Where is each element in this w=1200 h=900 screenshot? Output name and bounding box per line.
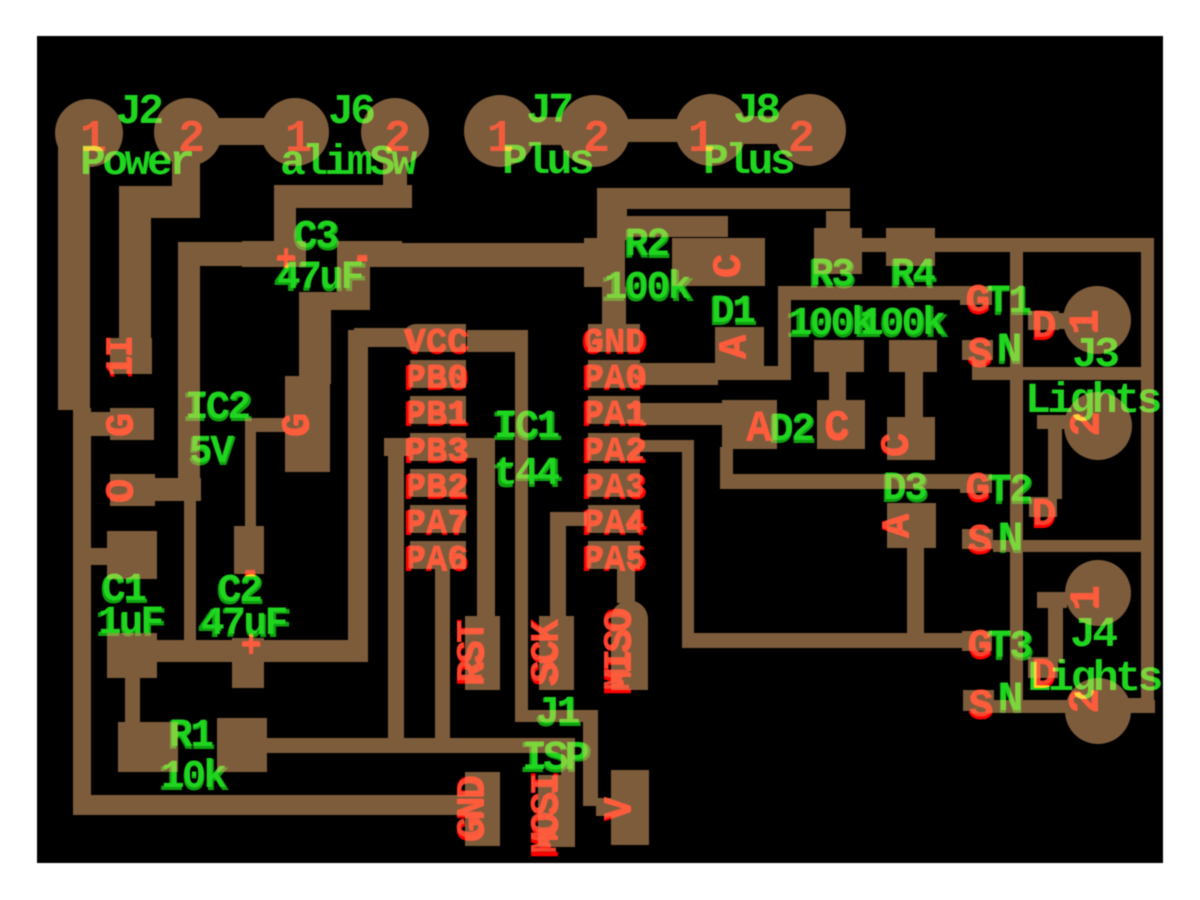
pin label V: [598, 796, 644, 821]
wire J2.1 ground vertical: [58, 133, 90, 410]
wire barX: [610, 216, 728, 237]
label C2: [216, 568, 263, 617]
IC1 pin PA2 pad: [588, 433, 640, 461]
wire bar1 left vertical: [597, 188, 627, 240]
pin 1 J3: [1062, 309, 1111, 335]
value IC1 t44: [491, 451, 562, 500]
wire PA1 to D2 A: [640, 403, 732, 425]
svg-text:A: A: [713, 334, 756, 357]
svg-text:D: D: [1032, 653, 1056, 698]
label T2: [986, 468, 1033, 517]
svg-text:+: +: [276, 241, 296, 279]
label Power: [80, 138, 192, 187]
svg-text:J1: J1: [536, 691, 580, 736]
pin 2 J6: [384, 114, 411, 165]
wire R3 bottom to D2 C: [829, 372, 846, 402]
label D2: [768, 407, 815, 456]
svg-text:S: S: [968, 519, 992, 564]
svg-text:PA6: PA6: [406, 541, 467, 579]
wire J4.2 stub: [1128, 698, 1154, 712]
connector J1 MOSI pad: [538, 775, 575, 847]
svg-text:PB0: PB0: [406, 360, 467, 398]
svg-text:J4: J4: [1070, 610, 1117, 659]
diode D3 A pad: [887, 503, 936, 548]
connector J1 MISO pad: [611, 601, 648, 690]
label R3: [808, 252, 855, 301]
wire V stub: [596, 798, 614, 816]
resistor R4 pad top: [886, 228, 935, 266]
connector J6 pad 1: [261, 98, 329, 166]
wire PA5 to MISO: [617, 567, 635, 603]
label J4: [1070, 610, 1117, 659]
pin label PB2: [404, 469, 470, 511]
wire J3.2 to T2 D: [1048, 415, 1062, 499]
pin label PB3: [404, 433, 470, 475]
svg-text:D2: D2: [770, 407, 813, 452]
wire jog to IC2 tab: [299, 292, 370, 310]
IC1 pin PA0 pad: [588, 360, 640, 388]
wire J2.2 to J6.1: [188, 118, 295, 145]
svg-text:t44: t44: [494, 451, 559, 496]
svg-text:O: O: [100, 479, 143, 502]
capacitor C1 pad bottom: [107, 633, 157, 678]
pin label T2 G: [965, 466, 991, 515]
svg-text:1uF: 1uF: [98, 600, 162, 645]
svg-text:C: C: [707, 254, 750, 277]
svg-text:R3: R3: [810, 252, 853, 297]
value C2 47uF: [197, 601, 290, 650]
svg-text:1: 1: [80, 114, 107, 165]
connector J1 SCK pad: [539, 616, 574, 690]
wire J2.2 jog: [119, 186, 200, 218]
svg-text:J2: J2: [116, 87, 162, 136]
pin label PB0: [404, 360, 470, 402]
label C1: [100, 567, 147, 616]
svg-text:IC2: IC2: [185, 385, 249, 430]
connector J3 pad 2: [1064, 392, 1132, 460]
pin label PA6: [404, 541, 470, 583]
pin 1 J2: [80, 114, 107, 165]
pin label T1 D: [1031, 304, 1057, 353]
pin label GND: [582, 324, 648, 366]
pin label PB1: [404, 396, 470, 438]
wire PA4 stub: [550, 512, 587, 526]
svg-text:S: S: [968, 332, 992, 377]
wire C3 plus elbow down: [178, 242, 200, 482]
svg-text:2: 2: [384, 114, 411, 165]
svg-text:Plus: Plus: [502, 137, 593, 186]
wire bar1 descender: [826, 211, 850, 233]
svg-text:D3: D3: [883, 466, 926, 511]
pin 2 J2: [178, 114, 205, 165]
connector J1 RST pad: [465, 616, 500, 690]
pin label D3 C: [875, 433, 921, 458]
wire VCC pad link: [467, 330, 528, 352]
wire J2.2 down: [172, 150, 200, 212]
IC2 pin G pad: [110, 408, 154, 440]
resistor R2 pad left: [584, 238, 625, 287]
label J1: [534, 690, 581, 739]
svg-text:PB3: PB3: [406, 433, 467, 471]
value R2 100k: [600, 265, 694, 314]
wire R2 to IC1 GND: [602, 287, 626, 326]
resistor R1 pad right: [217, 718, 267, 772]
svg-text:G: G: [966, 279, 990, 324]
wire VCC to V horizontal: [515, 710, 598, 722]
wire 5V horizontal bar: [157, 640, 368, 662]
svg-text:J8: J8: [733, 86, 779, 135]
capacitor C3 pad minus: [337, 241, 402, 267]
wire ground left vertical: [73, 408, 91, 810]
wire trunk to IC2 tab: [299, 292, 331, 384]
svg-text:VCC: VCC: [406, 324, 467, 362]
svg-text:A: A: [747, 406, 771, 451]
label J3: [1072, 330, 1118, 379]
IC2 pin I pad: [110, 338, 152, 374]
svg-text:10k: 10k: [161, 754, 226, 799]
label D1: [709, 289, 756, 338]
svg-text:PA7: PA7: [406, 505, 467, 543]
wire C3 minus to R2: [402, 243, 586, 267]
wire R2 to R3 bar1: [597, 188, 850, 209]
svg-text:PB1: PB1: [406, 396, 467, 434]
svg-text:S: S: [969, 684, 993, 729]
wire J6.2 down: [383, 150, 407, 208]
wire frame divider 1: [972, 367, 1154, 380]
pin label D2 A: [746, 405, 772, 454]
IC1 pin PA4 pad: [588, 505, 640, 533]
value C1 1uF: [95, 600, 165, 649]
pin label PA0: [582, 360, 648, 402]
label C3: [292, 214, 339, 263]
pin label GND J1: [451, 775, 497, 842]
svg-text:PA3: PA3: [584, 469, 645, 507]
transistor T3 D pad: [1028, 657, 1058, 678]
wire IC2 O stub: [155, 478, 201, 501]
svg-text:SCK: SCK: [525, 620, 568, 683]
wire MOSI drop: [561, 738, 575, 778]
capacitor C3 pad plus: [242, 241, 306, 267]
svg-text:+: +: [241, 627, 261, 665]
pin label RST: [451, 619, 497, 686]
svg-text:G: G: [100, 413, 143, 436]
pin label PA3: [582, 469, 648, 511]
pin label D1 C: [707, 254, 753, 279]
pin 2 J7: [583, 114, 610, 165]
svg-text:1I: 1I: [100, 337, 141, 376]
IC1 pin VCC pad: [402, 324, 466, 352]
label R2: [623, 222, 670, 271]
IC1 pin PA7 pad: [410, 505, 466, 533]
wire D1 A riser: [778, 292, 791, 380]
IC1 pin PB0 pad: [410, 360, 466, 388]
pin 2 J8: [788, 114, 815, 165]
pin label VCC: [404, 324, 470, 366]
connector J1 GND pad: [465, 772, 500, 846]
wire R4 bottom to D3 C: [905, 372, 923, 418]
svg-text:MOSI: MOSI: [525, 776, 568, 854]
svg-text:-: -: [352, 239, 372, 277]
svg-text:N: N: [998, 515, 1023, 563]
pin label SCK: [525, 618, 571, 686]
wire down to C3 plus: [274, 185, 296, 245]
svg-text:T3: T3: [988, 624, 1031, 669]
pin label D2 C: [824, 404, 850, 453]
svg-text:1: 1: [487, 114, 514, 165]
pin 1 J6: [285, 114, 312, 165]
svg-text:V: V: [598, 796, 641, 819]
svg-text:1: 1: [1064, 309, 1109, 333]
label T1: [985, 279, 1032, 328]
label J7: [526, 86, 571, 135]
pin label IC2 G: [100, 413, 146, 438]
svg-text:2: 2: [583, 114, 610, 165]
wire down to C2 top: [245, 418, 256, 530]
resistor R2 pad right and diode D1 C pad: [672, 238, 765, 286]
svg-text:PA0: PA0: [584, 360, 645, 398]
wire J7.2 to J8.1: [594, 119, 711, 142]
wire J4.1 stub: [1037, 592, 1067, 608]
pin label D3 A: [876, 513, 922, 538]
value C3 47uF: [273, 255, 366, 304]
wire D1 A bottom bar: [715, 366, 788, 380]
pin label IC2 tab G: [276, 413, 322, 438]
wire D2 A down: [720, 447, 733, 479]
svg-text:R2: R2: [625, 222, 668, 267]
svg-text:Plus: Plus: [703, 137, 794, 186]
svg-text:5V: 5V: [189, 429, 234, 474]
svg-text:C: C: [825, 405, 849, 450]
transistor T2 D pad: [1029, 497, 1057, 517]
wire PA2 vertical: [682, 440, 694, 645]
svg-text:2: 2: [1065, 411, 1110, 435]
svg-text:T2: T2: [988, 468, 1031, 513]
label R4: [889, 252, 937, 301]
wire J4.1 to T3 D: [1048, 592, 1063, 662]
wire C3 plus left bar: [178, 242, 244, 266]
IC1 pin PA1 pad: [588, 396, 640, 424]
wire PB1 stub: [384, 438, 410, 456]
connector J7 pad 2: [558, 95, 630, 167]
wire J3.2 stub: [1037, 415, 1067, 429]
svg-text:-: -: [240, 554, 260, 592]
label J2: [116, 87, 162, 136]
svg-text:2: 2: [1064, 688, 1109, 712]
wire J8.1 to J8.2: [711, 116, 810, 144]
label J4 Lights: [1026, 654, 1162, 703]
transistor T2 S pad: [962, 529, 993, 549]
pin 2 J3: [1063, 411, 1112, 437]
IC2 tab pad G: [285, 376, 330, 472]
pin label PA2: [582, 433, 648, 475]
wire into VCC pad: [354, 328, 412, 347]
transistor T1 S pad: [962, 340, 993, 360]
pin 1 J4: [1063, 585, 1112, 611]
wire ground top bar to frame: [862, 238, 1154, 252]
wire frame left vertical: [1010, 238, 1023, 713]
connector J3 pad 1: [1063, 286, 1131, 354]
svg-text:PB2: PB2: [406, 469, 467, 507]
svg-text:PA1: PA1: [584, 396, 645, 434]
transistor T1 G pad: [960, 286, 992, 305]
svg-text:R4: R4: [891, 252, 935, 297]
pin label T3 G: [967, 623, 993, 672]
svg-text:1: 1: [688, 114, 715, 165]
wire C3 minus down: [337, 263, 370, 310]
connector J6 pad 2: [361, 98, 429, 166]
IC1 pin GND pad: [588, 324, 640, 352]
svg-text:1: 1: [1065, 585, 1110, 609]
value R1 10k: [158, 754, 229, 803]
polarity C2 minus: [239, 554, 261, 596]
pin label T2 S: [967, 518, 993, 567]
pin label MOSI: [525, 773, 571, 858]
svg-text:C3: C3: [294, 214, 337, 259]
pin 1 J8: [688, 114, 715, 165]
wire PA2 stub: [640, 440, 694, 452]
connector J1 V pad: [611, 770, 649, 845]
pin label IC2 O: [100, 479, 146, 504]
svg-text:N: N: [997, 326, 1022, 374]
label T1 N: [996, 326, 1023, 378]
svg-text:RST: RST: [451, 621, 494, 683]
transistor T3 S pad: [963, 690, 994, 711]
svg-text:MISO: MISO: [598, 611, 641, 691]
label Plus J8: [703, 137, 794, 186]
svg-text:2: 2: [788, 114, 815, 165]
wire PB3 to RST: [477, 438, 495, 620]
svg-text:C: C: [875, 433, 918, 456]
connector J4 pad 2: [1065, 678, 1131, 744]
transistor T2 G pad: [960, 474, 992, 493]
IC2 pin O pad: [110, 474, 155, 506]
label IC1: [491, 404, 561, 453]
IC1 pin PA6 pad: [410, 541, 466, 569]
wire down to IC2 I: [119, 186, 151, 341]
pin label T3 D: [1031, 652, 1057, 701]
svg-text:T1: T1: [987, 279, 1031, 324]
capacitor C2 pad top: [234, 526, 264, 574]
IC1 pin PA3 pad: [588, 469, 640, 497]
wire T1 S stub: [972, 358, 986, 370]
resistor R3 pad top: [814, 228, 862, 274]
wire PA0 to D1 A: [640, 363, 718, 385]
wire 5V thin vertical: [184, 500, 196, 648]
value R4 100k: [856, 301, 949, 350]
svg-text:1: 1: [285, 114, 312, 165]
svg-text:GND: GND: [451, 777, 494, 839]
polarity C3 plus: [275, 241, 297, 283]
pin label PA7: [404, 505, 470, 547]
resistor R3 pad bottom: [814, 340, 864, 372]
wire to T1 G: [778, 286, 960, 300]
wire J7.1 to J7.2: [500, 117, 594, 145]
wire frame divider 2: [993, 540, 1154, 552]
pin 1 J7: [487, 114, 514, 165]
capacitor C1 pad top: [107, 531, 157, 579]
IC1 pin PA5 pad: [588, 541, 640, 569]
capacitor C2 pad bottom: [232, 638, 264, 688]
IC1 pin PB3 pad: [410, 433, 466, 461]
pin label T3 S: [968, 683, 994, 732]
connector J7 pad 1: [464, 95, 536, 167]
svg-text:G: G: [276, 413, 319, 436]
connector J8 pad 2: [774, 94, 846, 166]
svg-text:N: N: [998, 675, 1023, 723]
label T3 N: [997, 675, 1024, 727]
wire C1 stub: [86, 548, 110, 565]
svg-text:D: D: [1032, 305, 1056, 350]
wire D3 A down: [907, 546, 924, 641]
connector J8 pad 1: [675, 94, 747, 166]
pin label PA1: [582, 396, 648, 438]
svg-text:G: G: [968, 624, 992, 669]
svg-text:PA2: PA2: [584, 433, 645, 471]
polarity C3 minus: [351, 239, 373, 281]
pin label PA5: [582, 541, 648, 583]
IC1 pin PB1 pad: [410, 396, 466, 424]
pin label T2 D: [1031, 492, 1057, 541]
diode D2 A pad: [722, 400, 777, 449]
pin label MISO: [598, 608, 644, 695]
wire V vertical: [583, 710, 598, 806]
resistor R1 pad left: [118, 722, 178, 772]
wire J6.2 jog: [274, 185, 412, 208]
value R3 100k: [785, 301, 878, 350]
diode D2 C pad: [817, 400, 865, 449]
svg-text:D: D: [1032, 493, 1056, 538]
label T3: [986, 624, 1033, 673]
IC1 pin PB2 pad: [410, 469, 466, 497]
wire PA4 to SCK: [550, 512, 566, 620]
wire ground stub to IC2 G: [86, 412, 114, 436]
wire C1 to R1: [125, 665, 140, 727]
pin label T1 G: [965, 278, 991, 327]
svg-text:R1: R1: [169, 713, 213, 758]
label Plus J7: [502, 137, 593, 186]
svg-text:J3: J3: [1072, 330, 1118, 379]
label alimSw: [280, 138, 418, 187]
wire PA2 to T3 G: [682, 633, 962, 648]
svg-text:2: 2: [178, 114, 205, 165]
wire T1 D to J3.1: [1056, 313, 1101, 329]
svg-text:J7: J7: [526, 86, 571, 135]
connector J2 pad 1: [55, 99, 123, 167]
transistor T1 D pad: [1028, 311, 1059, 330]
wire frame bottom bar: [971, 700, 1155, 713]
pin label PA4: [582, 505, 648, 547]
connector J4 pad 1: [1065, 560, 1131, 626]
svg-text:GND: GND: [584, 324, 645, 362]
value IC2 5V: [187, 429, 236, 478]
diode D1 A pad: [715, 327, 764, 367]
wire frame right vertical: [1141, 238, 1154, 713]
svg-text:IC1: IC1: [494, 404, 559, 449]
label ISP: [519, 734, 591, 786]
wire PB1 vertical: [388, 438, 404, 748]
label J8: [733, 86, 779, 135]
svg-text:100k: 100k: [860, 301, 945, 346]
resistor R4 pad bottom: [889, 340, 937, 372]
transistor T3 G pad: [962, 631, 992, 651]
label R1: [167, 713, 214, 762]
wire R1 to MOSI bar: [267, 738, 575, 753]
label D3: [881, 466, 928, 515]
svg-text:J6: J6: [328, 87, 374, 136]
label J3 Lights: [1025, 376, 1161, 425]
connector J2 pad 2: [154, 98, 222, 166]
wire PB3 stub: [465, 438, 495, 458]
